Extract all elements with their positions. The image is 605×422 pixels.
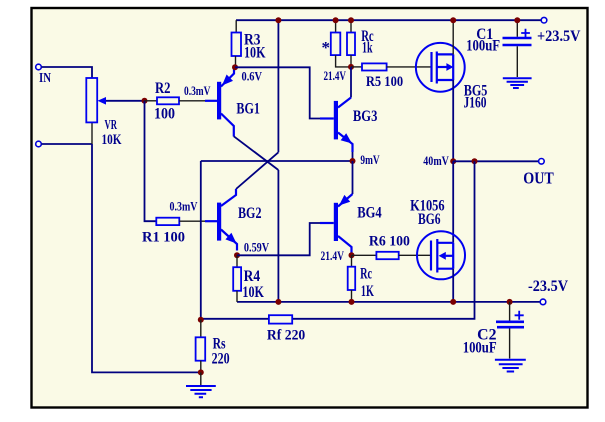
node: top rail dot at x=335.6 — [333, 17, 339, 23]
resistor R3 — [232, 20, 242, 67]
label C2 — [477, 327, 497, 344]
wire BG5 drain to top rail — [452, 20, 454, 54]
transistor BG1 (PNP) — [205, 68, 234, 137]
potentiometer VR — [86, 78, 144, 144]
label BG5 — [464, 82, 488, 99]
label IN — [39, 71, 51, 86]
node: top rail dot at x=351 — [348, 17, 354, 23]
label 21.4V (upper) — [324, 68, 347, 83]
wire BG5 source down to OUT node — [452, 80, 454, 161]
label 10K (R3) — [244, 44, 266, 61]
label 100uF (C2) — [463, 339, 497, 356]
label BG6 — [418, 211, 441, 228]
svg-text:10K: 10K — [242, 284, 264, 301]
node: bottom rail dot at x=278.4 — [275, 299, 281, 305]
capacitor C1 — [503, 20, 532, 77]
node: bottom rail dot at x=509.6 (C2) — [507, 299, 513, 305]
label J160 — [464, 95, 487, 112]
svg-text:100: 100 — [154, 106, 175, 123]
MOSFET BG6 (N-ch K1056) — [417, 231, 465, 279]
svg-text:21.4V: 21.4V — [321, 248, 345, 263]
wire cross down to -23.5V rail — [277, 170, 279, 302]
label 220 (Rs) — [212, 350, 230, 367]
node 40mV: junction dot — [450, 158, 456, 164]
wire 9mV horizontal — [201, 160, 353, 162]
svg-text:1K: 1K — [361, 283, 374, 300]
node: feedback tap dot — [472, 158, 478, 164]
svg-text:10K: 10K — [102, 132, 122, 148]
label R2 — [155, 80, 171, 97]
label BG4 — [357, 205, 382, 222]
node 0.59V: junction dot — [234, 252, 240, 258]
node 9mV: junction dot — [350, 158, 356, 164]
label * — [322, 38, 331, 57]
label BG2 — [238, 205, 262, 222]
svg-text:OUT: OUT — [523, 169, 554, 188]
svg-text:21.4V: 21.4V — [324, 68, 347, 83]
label Rs — [213, 335, 226, 352]
svg-text:10K: 10K — [244, 44, 266, 61]
svg-text:R4: R4 — [244, 268, 261, 285]
terminal IN top — [36, 64, 42, 70]
resistor R2 — [145, 97, 206, 104]
node: bottom rail dot at x=453.2 — [450, 299, 456, 305]
ground (below C1) — [503, 78, 532, 88]
svg-text:J160: J160 — [464, 95, 487, 112]
node: junction dot wiper/R2 — [142, 98, 148, 104]
wire BG2 collector diagonal to cross — [236, 152, 278, 189]
resistor Rf — [269, 315, 292, 323]
label 100 (R2) — [154, 106, 175, 123]
label OUT — [523, 169, 554, 188]
node 0.6V: junction dot — [232, 64, 238, 70]
MOSFET BG5 (P-ch J160) — [416, 43, 465, 92]
svg-text:9mV: 9mV — [360, 152, 380, 167]
svg-text:R1 100: R1 100 — [142, 229, 185, 245]
svg-text:IN: IN — [39, 71, 51, 86]
resistor Rc 1k (upper) — [347, 20, 355, 67]
label 10K (R4) — [242, 284, 264, 301]
wire: -23.5V bottom rail — [237, 301, 541, 303]
label Rf 220 — [267, 328, 305, 344]
svg-text:Rf 220: Rf 220 — [267, 328, 305, 344]
svg-text:0.6V: 0.6V — [242, 69, 263, 84]
node: top rail dot at x=453.2 — [450, 17, 456, 23]
node 21.4V upper: junction dot — [348, 64, 354, 70]
wire VR bottom down and across to Rs bottom — [92, 144, 201, 372]
wire: +23.5V top rail — [236, 19, 543, 21]
ground (below C2) — [495, 360, 526, 372]
label 0.6V — [242, 69, 263, 84]
wire left column down to Rs junction — [200, 161, 202, 320]
svg-text:Rc: Rc — [360, 266, 372, 283]
label R5 100 — [366, 74, 403, 90]
label BG3 — [353, 108, 378, 125]
svg-text:BG6: BG6 — [418, 211, 441, 228]
svg-text:R6 100: R6 100 — [369, 233, 410, 249]
terminal -23.5V — [540, 299, 546, 305]
resistor Rc 1K (lower) — [348, 255, 356, 302]
label -23.5V — [528, 278, 568, 295]
label VR — [105, 118, 118, 133]
wire cross up to +23.5V rail — [277, 20, 279, 152]
svg-text:100uF: 100uF — [463, 339, 497, 356]
terminal +23.5V — [541, 17, 547, 23]
svg-text:+23.5V: +23.5V — [537, 28, 581, 45]
label 0.3mV (lower) — [170, 198, 198, 213]
label BG1 — [236, 101, 260, 118]
wire OUT — [453, 160, 538, 162]
resistor R6 — [352, 252, 431, 259]
label K1056 — [410, 197, 445, 214]
wire BG6 source to bottom rail — [452, 269, 454, 302]
label 1K — [361, 283, 374, 300]
svg-text:0.3mV: 0.3mV — [170, 198, 198, 213]
svg-text:1k: 1k — [362, 40, 373, 57]
node: Rs top junction dot — [198, 317, 204, 323]
label 21.4V (lower) — [321, 248, 345, 263]
svg-text:40mV: 40mV — [423, 153, 449, 168]
terminal IN bottom — [36, 141, 42, 147]
capacitor C2 — [496, 302, 524, 359]
label Rc (upper) — [361, 28, 374, 45]
transistor BG2 (NPN) — [205, 189, 237, 251]
wire 0.6V node to BG3 base — [235, 67, 320, 118]
wire IN bottom to VR bottom node — [42, 143, 93, 145]
label R4 — [244, 268, 261, 285]
label R6 100 — [369, 233, 410, 249]
label +23.5V — [537, 28, 581, 45]
svg-text:R2: R2 — [155, 80, 171, 97]
svg-text:*: * — [322, 38, 331, 57]
transistor BG4 (PNP) — [320, 161, 353, 255]
wire feedback down from OUT — [202, 161, 475, 318]
label 0.59V — [244, 240, 270, 255]
svg-text:BG4: BG4 — [357, 205, 382, 222]
terminal OUT — [539, 159, 545, 165]
wire BG3 emitter to 9mV node — [352, 152, 354, 161]
svg-text:BG2: BG2 — [238, 205, 262, 222]
label C1 — [476, 26, 493, 43]
svg-text:220: 220 — [212, 350, 230, 367]
svg-text:BG1: BG1 — [236, 101, 260, 118]
node: top rail dot at x=517.3 (C1) — [514, 17, 520, 23]
label 100uF (C1) — [466, 38, 500, 55]
svg-text:R5 100: R5 100 — [366, 74, 403, 90]
wire BG6 drain from OUT node — [452, 161, 454, 243]
label 10K (VR) — [102, 132, 122, 148]
resistor R5 — [351, 63, 431, 70]
svg-text:100uF: 100uF — [466, 38, 500, 55]
wire IN top to VR — [42, 67, 93, 78]
label R1 100 — [142, 229, 185, 245]
label 0.3mV (upper) — [184, 83, 211, 98]
wire BG1 collector diagonal to cross — [234, 136, 279, 170]
node 21.4V lower: junction dot — [349, 252, 355, 258]
label Rc (lower) — [360, 266, 372, 283]
node: top rail dot at x=278.4 — [275, 17, 281, 23]
svg-text:BG3: BG3 — [353, 108, 378, 125]
wire junction down to R1 — [145, 101, 157, 221]
label 40mV — [423, 153, 449, 168]
svg-text:0.3mV: 0.3mV — [184, 83, 211, 98]
label 1k — [362, 40, 373, 57]
resistor Rs — [196, 320, 206, 373]
node: bottom rail dot at x=351.5 — [349, 299, 355, 305]
svg-text:0.59V: 0.59V — [244, 240, 270, 255]
resistor * (bias) — [331, 20, 351, 67]
resistor R4 — [233, 255, 241, 302]
transistor BG3 (NPN) — [320, 98, 353, 153]
label R3 — [244, 31, 261, 48]
wire 21.4V down to BG3 collector — [350, 67, 352, 98]
ground (below Rs) — [186, 372, 216, 397]
svg-text:-23.5V: -23.5V — [528, 278, 568, 295]
svg-text:VR: VR — [105, 118, 118, 133]
resistor R1 — [156, 218, 205, 225]
node: Rs bottom junction dot — [198, 369, 204, 375]
wire 0.59V node to BG4 base — [237, 223, 320, 255]
label 9mV — [360, 152, 380, 167]
